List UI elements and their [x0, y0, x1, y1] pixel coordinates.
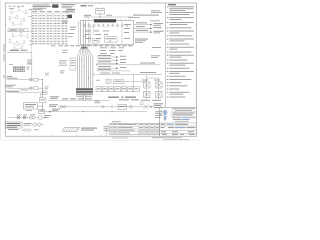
section divider box 1: [7, 29, 32, 32]
left section boundary line: [30, 52, 33, 79]
center annotation cluster: [100, 47, 124, 53]
branch circuit 2: [97, 58, 127, 61]
section divider 2: [7, 50, 32, 53]
main panel outline: [81, 20, 134, 44]
panel top ticks: [84, 19, 130, 21]
wire feeder A: [134, 22, 164, 25]
header reference box: [66, 10, 74, 13]
terminal table header: [32, 11, 68, 13]
header zone labels: [9, 4, 94, 9]
branch circuit 4: [97, 66, 127, 69]
GED equipment label: [108, 97, 136, 98]
fuse F2 circuit: [6, 85, 44, 91]
long branch wire lower: [93, 72, 162, 75]
legend box: [6, 122, 23, 128]
branch circuit 1: [97, 55, 127, 58]
cable marker hatch: [62, 127, 97, 131]
control wire run 1: [49, 99, 153, 109]
table separator line: [31, 8, 33, 53]
title block row 2: [160, 126, 197, 128]
panel inner divider: [121, 20, 123, 44]
control wire run 2: [39, 109, 148, 114]
title block row 1: [160, 123, 197, 125]
feeder labels: [62, 9, 76, 37]
title block row 3: [160, 130, 197, 135]
vertical riser: [42, 80, 43, 112]
terminal table rows: [32, 11, 68, 45]
panel inner labels: [85, 24, 131, 43]
destination text right: [154, 103, 164, 107]
panel left inner rail: [77, 21, 79, 45]
lower left annotation bits: [95, 101, 101, 104]
panel bottom label band: [51, 44, 132, 47]
left boxes column: [70, 58, 76, 70]
right margin destination labels: [151, 10, 162, 58]
left margin vertical text: [2, 44, 5, 78]
lower symbol row: [8, 129, 39, 131]
panel breaker row: [83, 24, 128, 27]
SAE logo: [160, 109, 167, 120]
instrument circles sketch B: [9, 32, 32, 49]
bus label text: [84, 15, 112, 18]
transformer T1 chain: [7, 114, 51, 119]
small junction stack: [28, 60, 32, 65]
footer text: [112, 137, 189, 140]
branch circuit 3: [97, 61, 127, 64]
main panel title: [94, 19, 116, 22]
revision table: [110, 123, 160, 134]
instrument circles sketch A: [9, 7, 32, 25]
title block frame: [160, 107, 197, 136]
revision header text: [112, 120, 121, 123]
feeder note text: [135, 39, 148, 43]
wire relay to bus: [88, 14, 134, 18]
notes list: [167, 6, 195, 97]
riser side labels: [45, 73, 50, 89]
spare feeder wire: [6, 91, 47, 98]
fuse F1 circuit: [7, 76, 44, 81]
panel to terminal link: [133, 74, 135, 86]
wire feeder B: [134, 26, 162, 29]
right margin small text: [155, 111, 163, 117]
neutral bus labels: [48, 95, 110, 100]
revision table side text: [104, 126, 110, 131]
title block society text: [171, 108, 196, 121]
terminal strip TB1: [76, 88, 93, 96]
panel internal bus lines: [84, 22, 117, 45]
notes divider line: [164, 3, 166, 107]
terminal designation boxes: [96, 87, 139, 92]
left box annotations: [59, 60, 67, 73]
legend note text: [24, 123, 32, 126]
terminal table title block: [33, 5, 52, 11]
bus name text block: [9, 64, 30, 72]
riser junction box: [40, 98, 47, 103]
contact ladder: [140, 74, 162, 105]
wire feeder C: [134, 30, 164, 33]
border zone ticks: [5, 3, 196, 136]
upper right annotation: [128, 15, 160, 22]
aux contact box row upper: [96, 79, 147, 83]
branch circuit 5: [97, 69, 131, 71]
pre-revision-table divider: [105, 128, 107, 136]
meter symbols: [32, 123, 45, 126]
vertical bus bundle: [78, 21, 93, 88]
control box: [24, 103, 43, 111]
long branch wire upper: [96, 63, 161, 66]
relay K1: [96, 7, 105, 14]
funnel side labels: [62, 50, 68, 53]
notes header: [168, 4, 176, 5]
